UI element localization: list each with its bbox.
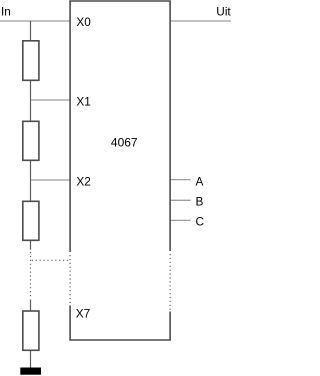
svg-text:In: In xyxy=(1,5,11,19)
svg-text:B: B xyxy=(196,194,204,208)
svg-text:X1: X1 xyxy=(76,95,90,109)
svg-text:X7: X7 xyxy=(76,307,90,321)
svg-text:X2: X2 xyxy=(76,175,90,189)
svg-text:A: A xyxy=(196,174,204,188)
svg-text:C: C xyxy=(196,214,205,228)
svg-text:4067: 4067 xyxy=(111,135,138,149)
svg-text:X0: X0 xyxy=(76,15,91,29)
svg-text:Uit: Uit xyxy=(216,4,231,18)
